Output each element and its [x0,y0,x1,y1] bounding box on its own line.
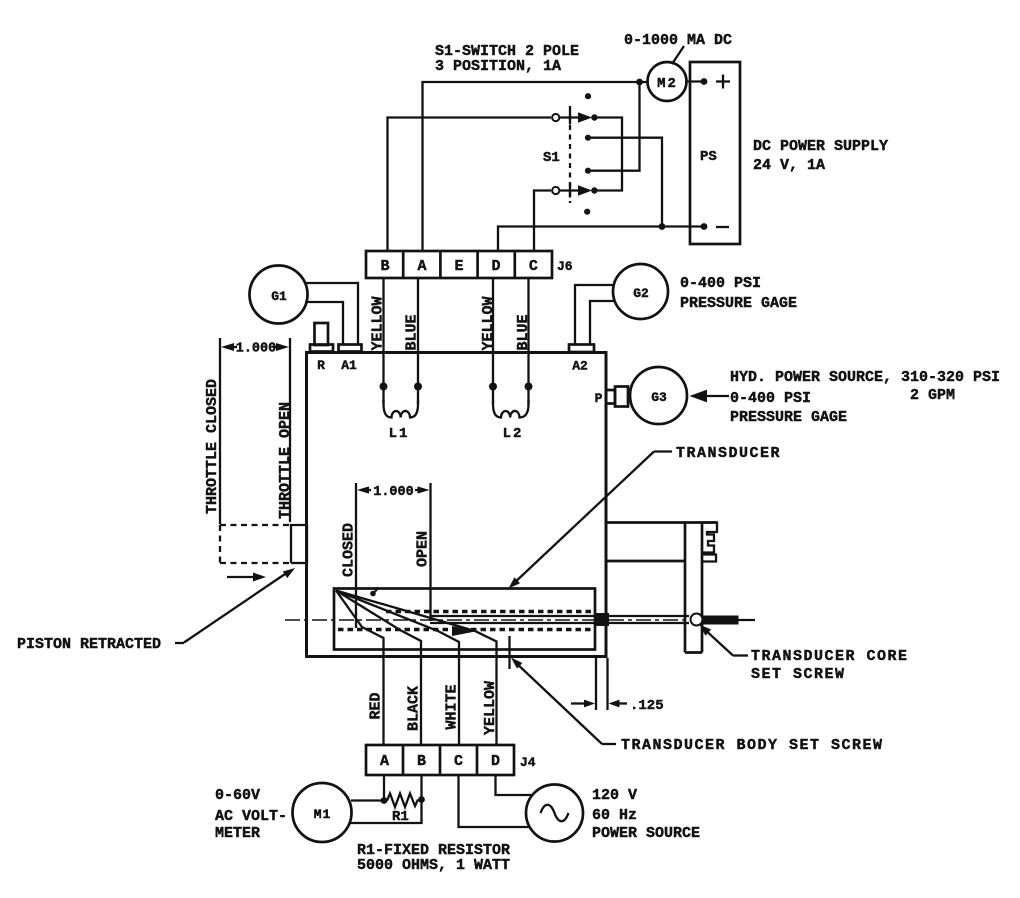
leader transducer [654,450,672,452]
svg-text:A: A [417,258,426,275]
svg-text:YELLOW: YELLOW [370,296,387,350]
transducer body box [334,589,595,650]
node R1 right [418,796,425,803]
lead wire 4 (YELLOW) [336,591,497,746]
svg-text:5000 OHMS, 1 WATT: 5000 OHMS, 1 WATT [357,857,510,874]
power supply PS box [690,62,740,244]
svg-text:BLUE: BLUE [404,314,421,350]
svg-text:BLACK: BLACK [406,686,423,731]
svg-text:D: D [491,258,500,275]
core rod outline top [430,615,689,617]
svg-text:E: E [454,258,463,275]
AC sine symbol [541,805,569,822]
voltmeter M1 [293,783,352,842]
svg-text:J4: J4 [520,755,536,770]
port R cap [310,345,333,352]
svg-text:CLOSED: CLOSED [341,523,358,577]
svg-text:R: R [317,358,325,373]
switch S1 pole 1 arrow [560,116,586,118]
switch S1 unused contact bottom [584,209,590,215]
wire D to PS minus [498,227,704,252]
dimension 1.000 spool arrows [357,486,369,493]
wire J6-B to L1 left [382,278,384,404]
rod ink blob at box exit [594,613,609,626]
transducer winding dashed lower [338,628,592,631]
resistor R1 [387,794,418,808]
svg-text:A: A [380,753,389,770]
piston motion arrow [227,576,258,578]
mounting bracket arm bottom [606,560,685,563]
node L1 right [414,383,422,391]
dimension 1.000 throttle ext line left [219,338,221,524]
switch S1 contact row3 [585,168,591,174]
dimension 1.000 throttle arrows [221,343,234,351]
node R1 left [381,797,388,804]
transducer body set screw [508,636,510,669]
svg-text:2 GPM: 2 GPM [910,387,955,404]
svg-text:METER: METER [215,825,260,842]
svg-text:120 V: 120 V [592,787,637,804]
switch S1 tick pole 1 [569,111,571,125]
node junction on PS minus wire [659,223,666,230]
svg-text:M2: M2 [657,76,678,92]
svg-text:C: C [529,258,538,275]
dimension 1.000 spool ext line closed [355,483,357,628]
svg-text:L2: L2 [503,426,524,442]
svg-text:PISTON RETRACTED: PISTON RETRACTED [17,636,161,653]
svg-text:0-400 PSI: 0-400 PSI [730,390,811,407]
svg-text:L1: L1 [389,426,410,442]
wire J4-D to AC source [496,775,533,795]
port R stem [315,323,329,345]
svg-text:S1: S1 [543,150,560,166]
svg-text:G3: G3 [651,390,667,405]
AC power source [526,785,583,842]
lead wire 1 (RED) [336,591,384,746]
svg-text:C: C [454,753,463,770]
svg-text:1.000: 1.000 [236,342,277,357]
svg-text:24 V, 1A: 24 V, 1A [753,157,825,174]
coil L1 [384,400,419,418]
core rod outline bottom [430,622,689,624]
PS plus terminal [701,78,708,85]
svg-text:HYD. POWER SOURCE, 310-320 PSI: HYD. POWER SOURCE, 310-320 PSI [730,369,1000,386]
connector J4 box [366,745,514,775]
svg-text:.125: .125 [630,698,664,714]
svg-text:YELLOW: YELLOW [482,681,499,735]
svg-text:B: B [417,753,426,770]
svg-text:D: D [491,753,500,770]
svg-text:G2: G2 [633,286,649,301]
tube A2 to G2 inner [590,301,615,344]
piston end solid [291,525,307,563]
node L1 left [380,383,388,391]
svg-text:0-400 PSI: 0-400 PSI [680,275,761,292]
mounting bracket bar [684,523,687,653]
leader body set screw [602,743,616,745]
PS minus terminal [701,223,708,230]
switch S1 pole 2 terminal [552,187,559,194]
wire J4-B to M1 bottom [350,775,422,823]
arrowhead on lower dashed line [452,626,478,636]
svg-text:DC POWER SUPPLY: DC POWER SUPPLY [753,138,888,155]
svg-text:J6: J6 [557,259,573,274]
meter M2 [648,62,687,101]
gage G1 [250,266,308,324]
wire M1 top [351,799,384,801]
lead wire 2 (BLACK) [336,591,421,746]
switch S1 contact row2 [585,135,591,141]
dimension 1.000 throttle ext line right [289,338,291,522]
coil L2 [493,400,529,418]
wire J6-C to L2 right [527,278,529,404]
svg-text:TRANSDUCER BODY SET SCREW: TRANSDUCER BODY SET SCREW [621,737,884,754]
transducer core set screw [691,614,703,626]
svg-text:PS: PS [700,149,717,165]
port A1 cap [339,345,362,352]
switch S1 dashed gang link [569,106,571,203]
svg-text:RED: RED [368,692,385,719]
dimension 1.000 spool ext line open [429,483,431,621]
switch S1 tick pole 2 [569,184,571,198]
svg-text:PRESSURE GAGE: PRESSURE GAGE [730,409,847,426]
dimension .125 ext lines [595,658,597,710]
svg-text:AC VOLT-: AC VOLT- [215,808,287,825]
transducer winding dashed upper [386,610,592,613]
leader core set screw [733,654,748,656]
svg-text:SET SCREW: SET SCREW [751,666,846,683]
wire J4-C to AC source [459,775,531,827]
arrow into G3 [690,390,708,403]
node L2 right [525,383,533,391]
port P stub [606,390,615,404]
small d mark [370,591,376,597]
svg-text:BLUE: BLUE [515,314,532,350]
wire B to S1 pole 1 [388,118,552,252]
wire joining pole arrows [594,118,622,191]
svg-text:WHITE: WHITE [444,684,461,729]
gage G2 [613,264,668,319]
svg-text:G1: G1 [271,289,287,304]
svg-text:THROTTLE OPEN: THROTTLE OPEN [277,402,294,519]
node L2 left [489,383,497,391]
svg-text:P: P [595,391,603,406]
wire contact row3 to M2 junction [588,82,640,171]
svg-text:THROTTLE CLOSED: THROTTLE CLOSED [204,379,221,514]
connector J6 box [366,251,552,278]
wire C to S1 pole 2 [534,191,551,252]
wire A to M2 (top horizontal) [423,82,648,251]
mounting bracket arm top [606,521,717,524]
svg-text:PRESSURE GAGE: PRESSURE GAGE [680,295,797,312]
svg-text:M1: M1 [314,807,332,822]
piston retracted dashed outline [220,524,291,526]
switch S1 pole 2 arrow [560,189,586,191]
svg-text:0-1000 MA DC: 0-1000 MA DC [624,32,732,49]
wire J6-A to L1 right [417,278,419,404]
svg-text:1.000: 1.000 [373,485,414,500]
gage G3 [630,367,687,424]
svg-text:0-60V: 0-60V [215,787,260,804]
dimension .125 arrows [571,702,586,704]
mounting bracket teeth [702,523,717,562]
wire J4-A down [383,775,385,801]
svg-text:A2: A2 [572,359,588,374]
wire J6-D to L2 left [492,278,494,404]
switch S1 pole 1 terminal [552,114,559,121]
tube G1 to A1 inner [305,302,343,344]
svg-text:OPEN: OPEN [415,531,432,567]
svg-text:A1: A1 [341,358,357,373]
svg-text:60 Hz: 60 Hz [592,807,637,824]
servovalve main box [307,353,607,657]
core rod end solid [703,616,739,625]
centerline [285,619,688,621]
svg-text:TRANSDUCER CORE: TRANSDUCER CORE [751,648,909,665]
svg-text:POWER SOURCE: POWER SOURCE [592,825,700,842]
tube A2 to G2 outer [575,285,614,344]
svg-text:YELLOW: YELLOW [480,296,497,350]
port A2 cap [569,345,594,353]
leader piston retracted [175,642,184,644]
wire M2 to PS plus [686,80,704,82]
tube G1 to A1 outer [304,283,358,344]
svg-text:TRANSDUCER: TRANSDUCER [676,445,781,462]
svg-text:B: B [380,258,389,275]
switch S1 unused contact top [585,93,591,99]
lead wire 3 (WHITE) [336,591,459,746]
svg-text:3 POSITION, 1A: 3 POSITION, 1A [435,58,561,75]
node junction at M2 drop [636,79,643,86]
wire contact row2 to PS minus wire [588,138,662,227]
leader to M2 [672,46,684,64]
